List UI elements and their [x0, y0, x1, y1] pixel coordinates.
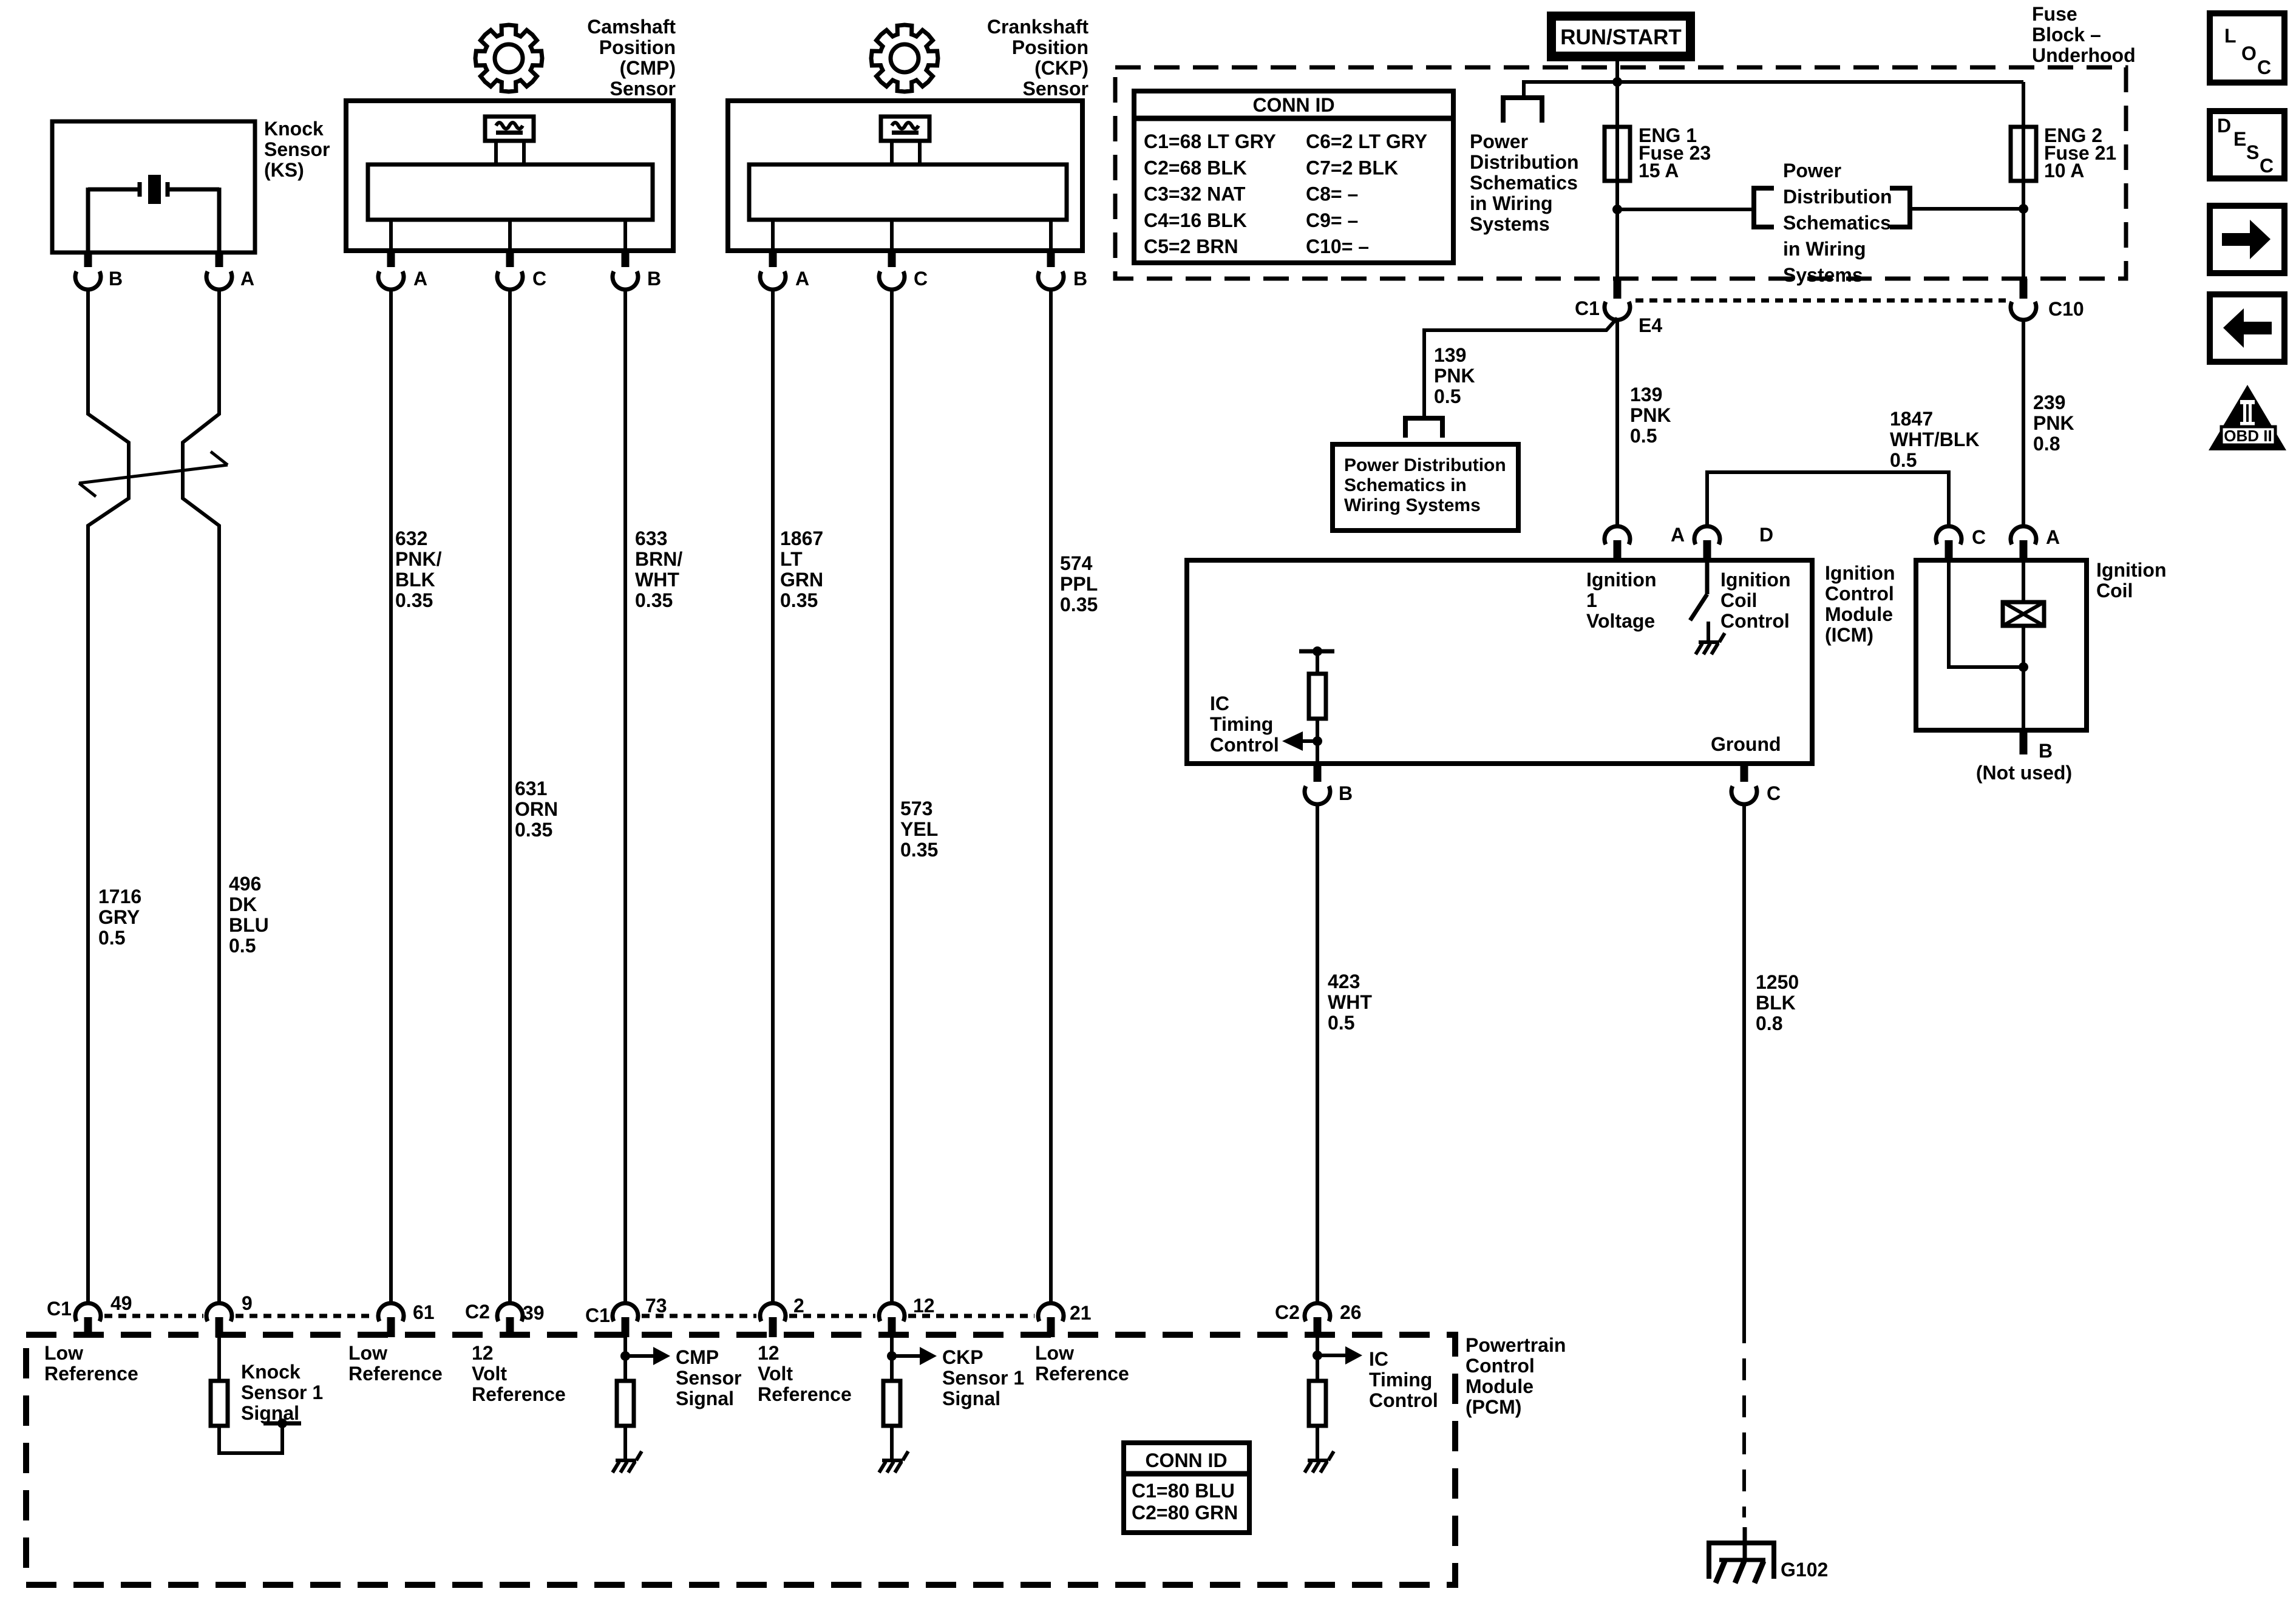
svg-text:423: 423	[1328, 971, 1360, 992]
svg-text:Low: Low	[1035, 1342, 1074, 1364]
svg-text:C6=2 LT GRY: C6=2 LT GRY	[1306, 131, 1427, 152]
coil pin C internal wire	[1949, 560, 2023, 667]
svg-text:B: B	[2039, 740, 2053, 762]
svg-text:Volt: Volt	[472, 1363, 507, 1385]
IC timing control label (PCM)	[1369, 1348, 1438, 1411]
label 633 BRN/WHT 0.35	[635, 527, 682, 611]
svg-text:Reference: Reference	[472, 1383, 566, 1405]
svg-text:OBD II: OBD II	[2224, 427, 2272, 445]
knock sensor 1 signal circuit	[211, 1337, 301, 1453]
svg-text:1: 1	[1586, 589, 1597, 611]
svg-text:A: A	[1671, 524, 1685, 546]
svg-text:C1: C1	[47, 1298, 72, 1320]
CONN ID table (fuse block)	[1134, 91, 1453, 263]
svg-text:WHT/BLK: WHT/BLK	[1890, 429, 1980, 450]
svg-text:0.5: 0.5	[1328, 1012, 1354, 1034]
svg-text:C: C	[2257, 56, 2271, 78]
svg-text:573: 573	[900, 798, 932, 819]
svg-text:Sensor: Sensor	[1023, 78, 1089, 100]
fuse block underhood dashed border	[1115, 67, 2126, 279]
twisted pair crossing mark	[79, 452, 228, 497]
PCM label	[1466, 1334, 1566, 1418]
svg-text:Ground: Ground	[1711, 733, 1781, 755]
svg-text:BLK: BLK	[395, 569, 435, 591]
power dist bracket left	[1754, 188, 1774, 227]
powertrain control module (PCM) dashed box	[26, 1335, 1455, 1585]
power distribution schematics label (right)	[1783, 160, 1892, 286]
PCM pin 9 connector	[206, 1292, 253, 1337]
svg-text:E: E	[2233, 128, 2246, 150]
svg-text:GRY: GRY	[98, 906, 140, 928]
power dist bracket right	[1890, 188, 1910, 227]
CKP pin A connector	[760, 251, 809, 290]
svg-text:Powertrain: Powertrain	[1466, 1334, 1566, 1356]
svg-text:Block –: Block –	[2032, 24, 2101, 46]
label 239 PNK 0.8	[2033, 392, 2074, 455]
label 496 DK BLU 0.5	[229, 873, 269, 957]
svg-text:C10: C10	[2048, 298, 2084, 320]
svg-text:Low: Low	[348, 1342, 387, 1364]
svg-text:E4: E4	[1639, 314, 1662, 336]
svg-text:B: B	[1339, 782, 1353, 804]
wire 1716 GRY (KS B to PCM 49)	[88, 290, 129, 1303]
svg-text:D: D	[2217, 115, 2231, 137]
label 1867 LT GRN 0.35	[780, 527, 823, 611]
svg-text:Knock: Knock	[264, 118, 324, 140]
CKP gear icon	[871, 25, 938, 92]
wire 1867 LT GRN (CKP A to PCM 2)	[771, 290, 775, 1303]
node junction below ENG1	[1612, 205, 1622, 214]
svg-text:RUN/START: RUN/START	[1560, 25, 1682, 49]
svg-text:Low: Low	[44, 1342, 83, 1364]
svg-text:A: A	[413, 268, 427, 290]
svg-text:Module: Module	[1825, 603, 1893, 625]
wire bracket to ENG2 junction	[1910, 207, 2023, 211]
svg-text:(ICM): (ICM)	[1825, 624, 1873, 646]
dotted connector line E4 to C10	[1635, 299, 2006, 303]
IC timing control arrow	[1282, 731, 1322, 751]
svg-text:0.5: 0.5	[1630, 425, 1657, 447]
IC timing control resistor	[1309, 651, 1326, 764]
svg-text:0.5: 0.5	[1434, 385, 1461, 407]
CMP sensor body rectangle	[368, 164, 653, 220]
svg-text:21: 21	[1070, 1302, 1092, 1324]
svg-text:C: C	[2260, 155, 2274, 177]
svg-text:IC: IC	[1210, 693, 1229, 714]
ignition coil control label	[1720, 569, 1791, 632]
svg-text:CONN ID: CONN ID	[1252, 94, 1334, 116]
svg-text:DK: DK	[229, 893, 257, 915]
knock sensor (KS) box	[52, 121, 255, 253]
svg-text:Wiring Systems: Wiring Systems	[1344, 495, 1481, 515]
svg-text:Fuse: Fuse	[2032, 3, 2077, 25]
wire 573 YEL (CKP C to PCM 12)	[890, 290, 894, 1303]
wire 139 PNK branch	[1424, 318, 1617, 418]
svg-text:631: 631	[515, 778, 547, 799]
CMP pin wires inside box	[391, 220, 625, 251]
svg-text:WHT: WHT	[635, 569, 679, 591]
power distribution schematics box	[1333, 444, 1518, 531]
label 423 WHT 0.5	[1328, 971, 1372, 1034]
svg-text:BLU: BLU	[229, 914, 269, 936]
PCM pin 12 connector	[879, 1295, 935, 1337]
ignition control module (ICM) box	[1187, 560, 1812, 764]
svg-text:C7=2 BLK: C7=2 BLK	[1306, 157, 1398, 178]
svg-text:574: 574	[1060, 552, 1093, 574]
svg-text:C2=68 BLK: C2=68 BLK	[1144, 157, 1247, 178]
svg-text:139: 139	[1434, 344, 1466, 366]
forward arrow icon	[2210, 206, 2284, 273]
connector E4 (C1)	[1575, 279, 1662, 336]
node junction below ENG2	[2019, 204, 2028, 214]
svg-text:A: A	[795, 268, 809, 290]
LOC icon	[2210, 13, 2284, 83]
svg-text:YEL: YEL	[900, 818, 938, 840]
svg-text:Timing: Timing	[1210, 713, 1273, 735]
CMP pin C connector	[497, 251, 546, 290]
svg-text:Systems: Systems	[1470, 213, 1550, 235]
svg-text:49: 49	[110, 1292, 132, 1314]
svg-text:(Not used): (Not used)	[1976, 762, 2072, 784]
svg-text:D: D	[1759, 524, 1773, 546]
svg-text:C5=2 BRN: C5=2 BRN	[1144, 236, 1238, 257]
svg-text:0.8: 0.8	[1756, 1012, 1782, 1034]
svg-text:Timing: Timing	[1369, 1369, 1432, 1391]
svg-text:B: B	[1073, 268, 1087, 290]
dotted connector line 73-2	[642, 1314, 756, 1318]
CMP signal ground symbol	[613, 1451, 642, 1473]
svg-text:C: C	[914, 268, 928, 290]
CKP pin C connector	[879, 251, 928, 290]
fuse block underhood label	[2032, 3, 2136, 66]
CMP sensor signal circuit	[617, 1337, 670, 1459]
fuse ENG 1 Fuse 23 15A	[1605, 124, 1711, 181]
svg-text:Reference: Reference	[44, 1363, 138, 1385]
svg-text:1847: 1847	[1890, 408, 1933, 430]
back arrow icon	[2210, 294, 2284, 362]
low reference label (pin 61)	[348, 1342, 443, 1385]
svg-text:Control: Control	[1825, 583, 1894, 605]
svg-text:PNK: PNK	[1630, 404, 1671, 426]
svg-text:ORN: ORN	[515, 798, 558, 820]
svg-text:Position: Position	[1012, 36, 1089, 58]
low reference label (pin 49)	[44, 1342, 138, 1385]
svg-text:10 A: 10 A	[2044, 160, 2084, 181]
label 1250 BLK 0.8	[1756, 971, 1799, 1034]
IC timing control circuit (PCM)	[1309, 1337, 1362, 1459]
knock sensor piezo element	[88, 175, 219, 253]
DESC icon	[2210, 111, 2284, 178]
wire 1250 BLK solid part	[1742, 804, 1746, 1321]
svg-text:PNK/: PNK/	[395, 548, 442, 570]
CKP sensor outer box	[728, 101, 1082, 251]
svg-text:S: S	[2246, 141, 2259, 163]
svg-text:Control: Control	[1369, 1389, 1438, 1411]
svg-text:0.35: 0.35	[900, 839, 938, 861]
svg-text:0.35: 0.35	[515, 819, 552, 841]
svg-text:Sensor 1: Sensor 1	[942, 1367, 1024, 1389]
knock sensor 1 signal label	[241, 1361, 323, 1424]
S-connection staple (139 PNK)	[1405, 418, 1442, 438]
coil pin A connector	[2011, 526, 2060, 560]
svg-text:CONN ID: CONN ID	[1145, 1449, 1227, 1471]
12 volt reference label (pin 39)	[472, 1342, 566, 1405]
PCM C1 label (pin 73)	[585, 1304, 610, 1326]
PCM C1 label (left)	[47, 1298, 72, 1320]
svg-text:PNK: PNK	[2033, 412, 2074, 434]
svg-text:633: 633	[635, 527, 667, 549]
svg-text:C2: C2	[465, 1301, 490, 1323]
CKP sensor 1 signal circuit	[883, 1337, 937, 1459]
wire junction to power dist bracket (left)	[1617, 208, 1754, 211]
svg-text:(PCM): (PCM)	[1466, 1396, 1521, 1418]
dotted connector line 49-9	[104, 1314, 203, 1318]
svg-text:GRN: GRN	[780, 569, 823, 591]
CKP pin B connector	[1038, 251, 1087, 290]
wire 633 BRN/WHT (CMP B to PCM 73)	[623, 290, 627, 1303]
wire ENG2 fuse to C10	[2022, 181, 2025, 279]
svg-text:1867: 1867	[780, 527, 823, 549]
CMP sensor signal label	[676, 1346, 741, 1409]
svg-text:Reference: Reference	[348, 1363, 443, 1385]
svg-text:Control: Control	[1466, 1355, 1535, 1377]
wire 1847 WHT/BLK (ICM D to coil C)	[1707, 472, 1949, 526]
ICM internal switch	[1690, 560, 1708, 642]
coil pin B stub (not used)	[1976, 730, 2072, 784]
CMP sensor head element	[485, 117, 534, 164]
CKP sensor head element	[881, 117, 929, 164]
svg-text:A: A	[2046, 526, 2060, 548]
svg-text:Ignition: Ignition	[1586, 569, 1657, 591]
svg-text:Module: Module	[1466, 1375, 1533, 1397]
svg-text:L: L	[2224, 25, 2237, 47]
svg-text:Power: Power	[1470, 131, 1528, 152]
PCM C2 label (pin 26)	[1275, 1301, 1300, 1323]
12 volt reference label (pin 2)	[758, 1342, 852, 1405]
PCM pin 21 connector	[1038, 1302, 1092, 1337]
svg-text:Ignition: Ignition	[1825, 562, 1895, 584]
svg-text:1250: 1250	[1756, 971, 1799, 993]
svg-text:(CMP): (CMP)	[620, 57, 676, 79]
svg-text:Coil: Coil	[2096, 580, 2133, 602]
svg-text:Systems: Systems	[1783, 264, 1863, 286]
svg-text:0.8: 0.8	[2033, 433, 2060, 455]
svg-text:in Wiring: in Wiring	[1783, 238, 1866, 260]
CMP sensor outer box	[346, 101, 673, 251]
dotted connector line 12-21	[908, 1314, 1034, 1318]
svg-text:Sensor: Sensor	[610, 78, 676, 100]
svg-text:Sensor 1: Sensor 1	[241, 1381, 323, 1403]
label 632 PNK/BLK 0.35	[395, 527, 442, 611]
svg-text:496: 496	[229, 873, 261, 895]
svg-text:61: 61	[413, 1301, 435, 1323]
svg-text:0.5: 0.5	[1890, 449, 1917, 471]
wire 496 DK BLU (KS A to PCM 9)	[183, 290, 219, 1303]
svg-text:C8= –: C8= –	[1306, 183, 1358, 205]
dotted connector line 2-12	[789, 1314, 875, 1318]
PCM pin 2 connector	[760, 1295, 804, 1337]
ICM pin B connector	[1305, 764, 1353, 804]
svg-text:C2=80 GRN: C2=80 GRN	[1132, 1502, 1238, 1524]
KS pin A connector	[206, 253, 254, 290]
wire top feed to S-bracket	[1524, 82, 1617, 98]
svg-text:B: B	[647, 268, 661, 290]
CKP sensor body rectangle	[749, 164, 1067, 220]
svg-text:26: 26	[1340, 1301, 1362, 1323]
camshaft position sensor label	[587, 16, 676, 100]
svg-text:C1: C1	[1575, 297, 1600, 319]
svg-text:PPL: PPL	[1060, 573, 1098, 595]
svg-text:C9= –: C9= –	[1306, 209, 1358, 231]
svg-text:PNK: PNK	[1434, 365, 1475, 387]
svg-text:Volt: Volt	[758, 1363, 793, 1385]
ignition coil label	[2096, 559, 2167, 602]
wire RUN/START feed	[1615, 58, 1619, 82]
CMP gear icon	[475, 25, 542, 92]
PCM pin 61 connector	[378, 1301, 435, 1337]
svg-text:Camshaft: Camshaft	[587, 16, 676, 38]
svg-text:Control: Control	[1720, 610, 1790, 632]
svg-text:2: 2	[793, 1295, 804, 1317]
fuse ENG 2 Fuse 21 10A	[2011, 124, 2116, 181]
wire top feed to ENG2	[1617, 80, 2023, 84]
svg-text:C10= –: C10= –	[1306, 236, 1369, 257]
ground G102 symbol	[1707, 1527, 1828, 1583]
label 574 PPL 0.35	[1060, 552, 1098, 615]
label 1716 GRY 0.5	[98, 886, 141, 949]
svg-text:WHT: WHT	[1328, 991, 1372, 1013]
svg-text:(KS): (KS)	[264, 159, 304, 181]
svg-text:Schematics: Schematics	[1783, 212, 1891, 234]
ICM pin A connector	[1605, 524, 1685, 560]
svg-text:Signal: Signal	[942, 1388, 1000, 1409]
label 573 YEL 0.35	[900, 798, 938, 861]
low reference label (pin 21)	[1035, 1342, 1129, 1385]
wire 631 ORN (CMP C to PCM 39)	[508, 290, 512, 1303]
svg-text:A: A	[240, 268, 254, 290]
crankshaft position sensor label	[987, 16, 1089, 100]
CKP pin wires inside box	[773, 220, 1051, 251]
RUN/START box	[1547, 12, 1695, 61]
CMP pin A connector	[378, 251, 427, 290]
wire 632 PNK/BLK (CMP A to PCM 61)	[389, 290, 393, 1303]
svg-text:Position: Position	[599, 36, 676, 58]
svg-text:Coil: Coil	[1720, 589, 1757, 611]
svg-text:Sensor: Sensor	[264, 138, 330, 160]
IC timing control label (ICM)	[1210, 693, 1279, 756]
svg-text:in Wiring: in Wiring	[1470, 192, 1553, 214]
svg-text:Knock: Knock	[241, 1361, 301, 1383]
CKP sensor 1 signal label	[942, 1346, 1024, 1409]
svg-text:39: 39	[523, 1302, 545, 1324]
svg-text:Ignition: Ignition	[1720, 569, 1791, 591]
connector C10	[2011, 279, 2084, 320]
svg-text:BLK: BLK	[1756, 992, 1796, 1014]
label 139 PNK 0.5 (branch)	[1434, 344, 1475, 407]
CKP signal ground symbol	[879, 1451, 908, 1473]
svg-text:1716: 1716	[98, 886, 141, 907]
svg-text:C2: C2	[1275, 1301, 1300, 1323]
svg-text:C1=68 LT GRY: C1=68 LT GRY	[1144, 131, 1276, 152]
label 139 PNK 0.5 (main)	[1630, 384, 1671, 447]
svg-text:C: C	[1972, 526, 1986, 548]
IC timing control bar	[1299, 646, 1334, 656]
label 631 ORN 0.35	[515, 778, 558, 841]
svg-text:Reference: Reference	[1035, 1363, 1129, 1385]
svg-text:IC: IC	[1369, 1348, 1388, 1370]
svg-text:0.35: 0.35	[780, 589, 818, 611]
coil primary winding symbol	[2003, 560, 2044, 730]
svg-text:O: O	[2241, 42, 2257, 64]
svg-text:LT: LT	[780, 548, 803, 570]
svg-text:239: 239	[2033, 392, 2065, 413]
ignition coil box	[1916, 560, 2087, 730]
svg-text:G102: G102	[1781, 1559, 1828, 1581]
PCM pin 39 connector	[497, 1302, 545, 1337]
wire 574 PPL (CKP B to PCM 21)	[1049, 290, 1053, 1303]
ICM label	[1825, 562, 1895, 646]
svg-text:Control: Control	[1210, 734, 1279, 756]
wire 423 WHT (ICM B to PCM 26)	[1316, 804, 1319, 1303]
svg-text:Sensor: Sensor	[676, 1367, 741, 1389]
svg-text:C1: C1	[585, 1304, 610, 1326]
svg-text:Signal: Signal	[241, 1402, 299, 1424]
ICM pin D connector	[1694, 524, 1773, 560]
dotted connector line 9-61	[236, 1314, 375, 1318]
PCM pin 49 connector	[75, 1292, 132, 1337]
svg-text:CKP: CKP	[942, 1346, 983, 1368]
svg-text:C: C	[1767, 782, 1781, 804]
coil pin C connector	[1936, 526, 1986, 560]
svg-text:0.35: 0.35	[1060, 594, 1098, 615]
svg-text:73: 73	[645, 1295, 667, 1317]
ignition 1 voltage label	[1586, 569, 1657, 632]
svg-text:632: 632	[395, 527, 427, 549]
PCM pin 26 connector	[1305, 1301, 1362, 1337]
wire 1250 BLK dashed part	[1742, 1321, 1746, 1517]
svg-text:12: 12	[758, 1342, 779, 1364]
svg-text:Underhood: Underhood	[2032, 44, 2136, 66]
wire 139 PNK (E4 to ICM A)	[1615, 320, 1619, 526]
svg-text:12: 12	[472, 1342, 494, 1364]
svg-text:Power: Power	[1783, 160, 1841, 181]
svg-text:Schematics in: Schematics in	[1344, 475, 1467, 495]
CONN ID table (PCM)	[1124, 1443, 1249, 1533]
ICM switch ground symbol	[1696, 633, 1725, 654]
svg-text:0.35: 0.35	[395, 589, 433, 611]
ICM pin C connector	[1731, 764, 1781, 804]
svg-text:0.5: 0.5	[98, 927, 125, 949]
ground label (ICM)	[1711, 733, 1781, 755]
knock sensor label	[264, 118, 330, 181]
svg-text:12: 12	[913, 1295, 935, 1317]
svg-text:9: 9	[242, 1292, 253, 1314]
PCM C2 label (pin 39)	[465, 1301, 490, 1323]
label 1847 WHT/BLK 0.5	[1890, 408, 1980, 471]
svg-text:Distribution: Distribution	[1783, 186, 1892, 208]
svg-text:Power Distribution: Power Distribution	[1344, 455, 1506, 475]
wire to ENG1 fuse	[1615, 82, 1619, 127]
svg-text:(CKP): (CKP)	[1034, 57, 1089, 79]
OBD II triangle icon	[2209, 385, 2286, 450]
IC timing control ground symbol	[1305, 1451, 1334, 1473]
svg-text:0.5: 0.5	[229, 935, 256, 957]
svg-text:C4=16 BLK: C4=16 BLK	[1144, 209, 1247, 231]
wire ENG1 fuse to E4	[1615, 181, 1619, 279]
svg-text:BRN/: BRN/	[635, 548, 682, 570]
wire to ENG2 fuse	[2022, 82, 2025, 127]
power distribution reference label (left)	[1470, 131, 1579, 235]
